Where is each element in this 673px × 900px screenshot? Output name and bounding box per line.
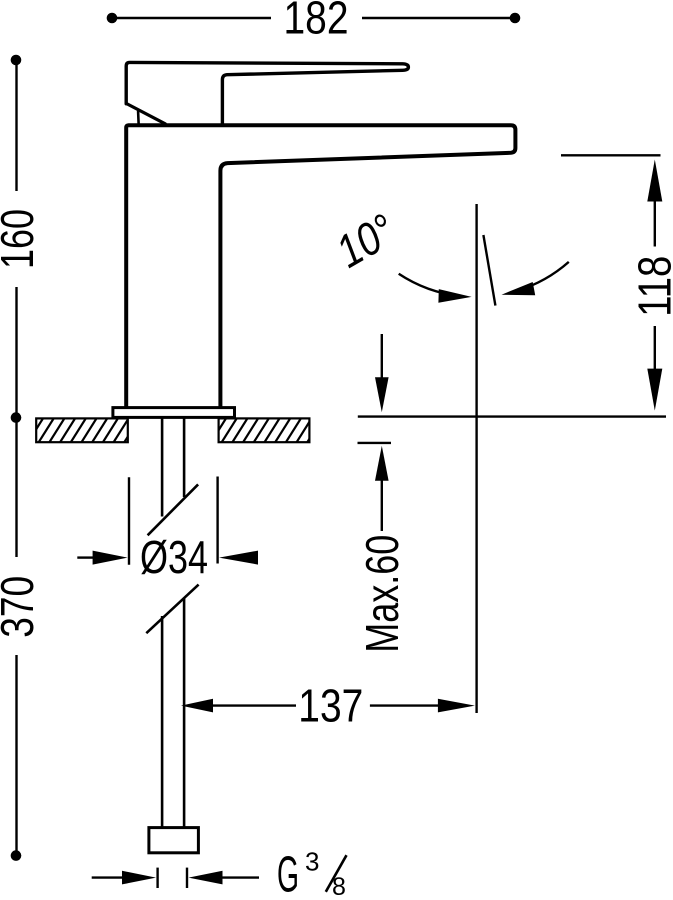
dimension diameter 34	[77, 477, 217, 565]
spout outlet reference line	[561, 154, 661, 156]
angle 10 degrees	[399, 262, 569, 296]
svg-text:Ø34: Ø34	[140, 531, 208, 583]
handle hidden rear edge	[137, 112, 140, 126]
svg-text:182: 182	[284, 0, 349, 43]
svg-text:Max.60: Max.60	[356, 535, 408, 653]
svg-text:160: 160	[0, 209, 43, 269]
svg-text:370: 370	[0, 576, 43, 638]
base flange	[113, 408, 235, 418]
G3/8 connector box	[149, 828, 199, 853]
handle rear chamfer	[126, 104, 165, 124]
svg-text:3: 3	[305, 847, 319, 877]
svg-text:118: 118	[629, 256, 673, 317]
svg-text:137: 137	[298, 679, 363, 731]
deck reference line	[358, 415, 666, 417]
pipe break slash upper	[148, 484, 199, 535]
stream axis vertical line	[475, 204, 477, 713]
countertop left hatched block	[28, 418, 171, 442]
dimension 118	[654, 201, 656, 369]
pipe break slash lower	[146, 585, 198, 634]
spout and body column	[126, 125, 515, 406]
stream tilted line	[483, 235, 495, 306]
dimension 160	[11, 55, 22, 413]
countertop right hatched block	[211, 418, 354, 442]
dimension 137	[212, 704, 439, 706]
dimension 182	[107, 13, 521, 24]
dimension 370	[11, 412, 22, 861]
supply pipe	[146, 418, 198, 827]
svg-text:8: 8	[332, 873, 346, 900]
dimension Max.60	[358, 334, 392, 531]
svg-text:10°: 10°	[327, 203, 403, 277]
svg-text:G: G	[277, 846, 299, 900]
dimension G3/8	[92, 868, 259, 888]
handle lever	[126, 62, 408, 123]
